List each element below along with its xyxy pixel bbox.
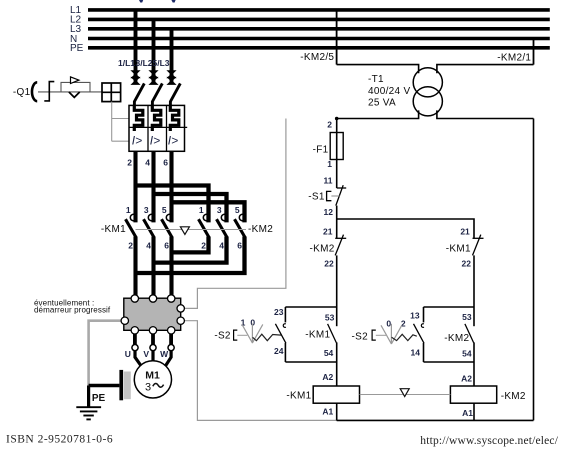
coil KM1: [313, 386, 359, 403]
coil interlock triangle: [400, 389, 409, 397]
wire transformer secondary right: [437, 110, 534, 118]
svg-text:3: 3: [144, 205, 149, 215]
svg-text:-S2: -S2: [214, 330, 231, 341]
wire left branch bottom rail: [285, 361, 336, 363]
svg-text:-KM2: -KM2: [310, 244, 335, 255]
svg-text:I>: I>: [150, 133, 160, 147]
svg-text:22: 22: [462, 259, 472, 269]
svg-text:12: 12: [324, 207, 334, 217]
contactor KM2 pole 1 contact: [199, 214, 210, 237]
svg-text:démarreur progressif: démarreur progressif: [34, 306, 111, 315]
bus L3: [70, 24, 550, 35]
contact S2b 13-14: [414, 307, 425, 362]
svg-text:0: 0: [386, 319, 391, 329]
wire starter output W: [169, 334, 173, 345]
selector S2b actuator: [372, 330, 386, 340]
contactor KM2 pole 3 contact: [235, 214, 246, 237]
contact KM2 NC left: [335, 235, 346, 256]
Q1 release box: [61, 82, 90, 92]
Q1 mechanical linkage lines: [112, 102, 129, 142]
soft starter note text: [34, 298, 111, 314]
svg-text:21: 21: [460, 227, 470, 237]
wire soft starter control lower to control circuit: [184, 321, 337, 421]
motor terminal circle W: [168, 345, 174, 351]
Q1 rotary handle arc: [32, 82, 37, 101]
svg-text:400/24 V: 400/24 V: [368, 86, 410, 97]
wire U to motor: [135, 351, 141, 366]
wire phase 2 to KM2 pole 2: [154, 194, 227, 222]
wire phase 3 to KM2 pole 3: [172, 202, 245, 222]
KM2 top terminal labels 1 3 5: [199, 205, 240, 215]
wire starter output V: [151, 334, 155, 345]
wire KM2 pole 2 output crossover: [154, 237, 227, 263]
wire starter output U: [133, 334, 137, 345]
wire transformer primary left: [337, 65, 419, 74]
bus N: [70, 34, 550, 45]
svg-text:-S1: -S1: [308, 192, 325, 203]
svg-text:I>: I>: [132, 133, 142, 147]
wire KM2 pole 1 output crossover: [172, 237, 209, 253]
soft starter terminal circle right upper: [177, 305, 184, 312]
contact KM1 NC right: [473, 235, 484, 256]
svg-text:-KM2/1: -KM2/1: [497, 53, 531, 64]
svg-text:-KM2/5: -KM2/5: [300, 52, 334, 63]
Q1 contact pole 2: [152, 83, 162, 105]
bus L2: [70, 15, 550, 26]
Q1 trip chevron: [69, 92, 80, 97]
svg-text:2: 2: [127, 158, 132, 168]
selector S2a actuator: [234, 330, 248, 340]
terminal labels 1/L1 3/L2 5/L3: [118, 58, 170, 68]
svg-text:ISBN 2-9520781-0-6: ISBN 2-9520781-0-6: [6, 434, 113, 446]
Q1 output terminal labels 2 4 6: [127, 158, 168, 168]
svg-text:PE: PE: [70, 43, 84, 54]
svg-text:54: 54: [324, 348, 334, 358]
svg-text:2: 2: [201, 241, 206, 251]
svg-text:6: 6: [237, 241, 242, 251]
wire soft starter shield to PE: [89, 321, 122, 386]
Q1 contact pole 3: [170, 83, 180, 105]
wire cross to right branch: [337, 219, 474, 238]
selector S2b mechanism: [381, 324, 402, 344]
svg-text:U: U: [125, 349, 131, 359]
wire KM1 pole 2 output to starter: [151, 237, 155, 298]
coil mechanical link: [360, 394, 451, 396]
wire to KM2 coil: [473, 362, 475, 386]
svg-text:I>: I>: [168, 133, 178, 147]
wire tap from L1: [336, 10, 338, 65]
wire tap from N: [533, 39, 535, 65]
svg-text:-KM2: -KM2: [248, 224, 273, 235]
svg-text:21: 21: [323, 227, 333, 237]
wire control right column lower: [473, 255, 475, 307]
wire phase 1 to KM2 pole 1: [136, 186, 209, 223]
Q1 contact pole 1: [134, 83, 144, 105]
cropped text descender mark 2: [171, 0, 175, 3]
wire control bottom: [337, 419, 534, 421]
wire KM1 pole 1 output to starter: [133, 237, 137, 298]
Q1 handle bracket: [44, 82, 54, 101]
svg-text:-KM1: -KM1: [446, 244, 471, 255]
svg-text:2: 2: [401, 319, 406, 329]
svg-text:-S2: -S2: [352, 332, 369, 343]
wire control right frame: [533, 119, 535, 421]
KM1 bottom terminal labels 2 4 6: [128, 241, 169, 251]
wire transformer secondary left: [337, 110, 419, 118]
bus PE: [70, 43, 550, 54]
svg-text:-T1: -T1: [368, 74, 384, 85]
svg-text:25 VA: 25 VA: [368, 98, 396, 109]
svg-text:5: 5: [235, 205, 240, 215]
wire V to motor: [151, 351, 154, 362]
KM2 bottom terminal labels 2 4 6: [201, 241, 242, 251]
svg-text:53: 53: [462, 312, 472, 322]
ground earth symbol: [76, 407, 101, 419]
svg-text:1: 1: [199, 205, 204, 215]
selector S2a position labels 1 0: [241, 317, 256, 327]
svg-text:W: W: [160, 349, 169, 359]
svg-text:3/L2: 3/L2: [135, 58, 152, 68]
wire soft starter control upper to control box frame: [184, 119, 286, 309]
svg-text:54: 54: [462, 349, 472, 359]
selector S2b position labels 0 2: [386, 319, 405, 329]
cropped text descender mark 1: [139, 0, 143, 3]
svg-text:1/L1: 1/L1: [118, 58, 135, 68]
svg-text:A2: A2: [461, 374, 472, 384]
svg-text:14: 14: [411, 347, 421, 357]
Q1 thermal element pole 1: [134, 105, 143, 131]
wire right branch top rail: [424, 306, 475, 308]
mechanical link KM1-KM2: [136, 229, 247, 231]
Q1 crossed linkage box: [102, 83, 121, 102]
svg-text:3: 3: [145, 382, 151, 394]
wire transformer primary right: [437, 65, 534, 74]
svg-text:-KM1: -KM1: [286, 391, 311, 402]
svg-text:11: 11: [324, 175, 333, 185]
svg-text:-KM2: -KM2: [444, 333, 469, 344]
wire KM2 coil to bottom: [473, 403, 475, 420]
coil KM2: [450, 386, 496, 403]
svg-text:2: 2: [327, 119, 332, 129]
mechanical interlock triangle: [180, 227, 189, 235]
soft starter terminal circle top 1: [131, 295, 138, 302]
wire KM1 coil to bottom: [336, 403, 338, 420]
wire KM1 pole 3 output to starter: [169, 237, 173, 298]
svg-text:13: 13: [410, 311, 420, 321]
plug-in disconnect marks pole 3: [167, 71, 175, 85]
soft starter terminal circle left: [121, 317, 128, 324]
Q1 actuator link wire: [38, 91, 102, 93]
svg-text:-Q1: -Q1: [13, 87, 31, 98]
switch S1 NC contact: [336, 185, 346, 205]
svg-text:2: 2: [128, 241, 133, 251]
svg-text:-F1: -F1: [313, 145, 329, 156]
wire phase 1 breaker to KM1 pole 1: [133, 151, 137, 222]
motor terminal circle U: [132, 345, 138, 351]
svg-text:4: 4: [146, 241, 151, 251]
transformer T1 labels: [368, 74, 410, 108]
soft starter terminal circle bottom 3: [168, 327, 175, 334]
svg-text:23: 23: [274, 307, 284, 317]
svg-text:24: 24: [274, 346, 284, 356]
svg-text:M1: M1: [145, 369, 160, 381]
wire left branch top rail: [285, 306, 336, 308]
svg-text:-KM2: -KM2: [501, 391, 526, 402]
wire control left column middle: [336, 206, 338, 239]
wire W to motor: [165, 351, 171, 366]
contactor KM1 pole 3 contact: [162, 214, 173, 237]
soft starter terminal circle top 2: [149, 295, 156, 302]
motor terminal circle V: [150, 345, 156, 351]
Q1 trip triangle: [71, 77, 79, 84]
selector S2b spring: [392, 334, 417, 340]
contactor KM1 pole 2 contact: [144, 214, 155, 237]
wire right branch bottom rail: [424, 361, 475, 363]
transformer T1: [413, 68, 442, 116]
svg-text:1: 1: [327, 159, 332, 169]
plug-in disconnect marks pole 1: [131, 71, 139, 85]
svg-text:5: 5: [162, 205, 167, 215]
Q1 overload/magnetic box: [129, 105, 187, 151]
wire drop from L2 to Q1 pole 2: [152, 19, 156, 84]
contact KM1 NO aux: [328, 307, 337, 362]
wire down to earth: [87, 386, 90, 408]
junction dot control supply: [335, 117, 339, 121]
wire control left column lower: [336, 255, 338, 307]
contactor KM2 pole 2 contact: [217, 214, 228, 237]
Q1 thermal element pole 3: [170, 105, 179, 131]
contact S2a 23-24: [275, 307, 286, 362]
selector S2a mechanism: [242, 324, 263, 344]
PE cable shield bar gray: [124, 372, 131, 400]
svg-text:22: 22: [324, 259, 334, 269]
svg-text:53: 53: [325, 313, 335, 323]
svg-text:-KM1: -KM1: [305, 330, 330, 341]
svg-text:-KM1: -KM1: [101, 224, 126, 235]
svg-text:4: 4: [145, 158, 150, 168]
soft starter terminal circle top 3: [168, 295, 175, 302]
soft starter terminal circle bottom 2: [149, 327, 156, 334]
wire phase 3 breaker to KM1 pole 3: [169, 151, 173, 222]
wire phase 2 breaker to KM1 pole 2: [151, 151, 155, 222]
svg-text:5/L3: 5/L3: [152, 58, 169, 68]
KM1 top terminal labels 1 3 5: [126, 205, 167, 215]
soft starter terminal circle right lower: [177, 317, 184, 324]
svg-text:V: V: [143, 349, 149, 359]
svg-text:A1: A1: [322, 406, 333, 416]
svg-text:6: 6: [163, 158, 168, 168]
wire drop from L1 to Q1 pole 1: [134, 10, 138, 85]
contact KM2 NO aux: [465, 307, 474, 362]
wire control left column upper: [336, 119, 338, 189]
wire drop from L3 to Q1 pole 3: [170, 29, 174, 85]
bus L1: [70, 5, 550, 16]
PE connection bar black: [119, 370, 123, 400]
wire KM2 pole 3 output crossover: [136, 237, 245, 274]
wire PE to motor bar: [89, 384, 120, 388]
svg-text:PE: PE: [92, 393, 106, 404]
wire to KM1 coil: [336, 362, 338, 386]
fuse F1: [330, 133, 343, 160]
plug-in disconnect marks pole 2: [149, 71, 157, 85]
svg-text:A1: A1: [462, 408, 473, 418]
svg-text:6: 6: [164, 241, 169, 251]
contactor KM1 pole 1 contact: [126, 214, 137, 237]
svg-text:4: 4: [219, 241, 224, 251]
selector S2a spring: [253, 334, 281, 341]
svg-text:3: 3: [217, 205, 222, 215]
svg-text:1: 1: [126, 205, 131, 215]
svg-text:A2: A2: [322, 372, 333, 382]
switch S1 actuator: [327, 191, 340, 200]
soft starter terminal circle bottom 1: [131, 327, 138, 334]
motor terminal labels U V W: [125, 349, 169, 359]
svg-text:http://www.syscope.net/elec/: http://www.syscope.net/elec/: [420, 435, 558, 447]
Q1 thermal element pole 2: [152, 105, 161, 131]
motor M1: [134, 361, 171, 398]
soft starter block: [124, 298, 181, 330]
